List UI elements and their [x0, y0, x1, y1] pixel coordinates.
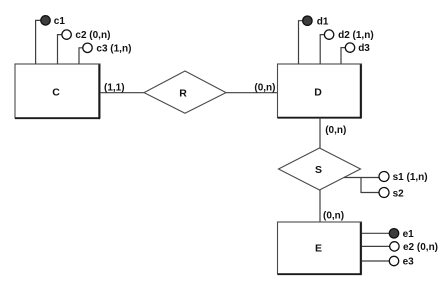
wire c2 stem	[58, 35, 62, 64]
attribute d1 (identifier)	[303, 16, 312, 25]
attribute e2	[390, 242, 399, 251]
attribute s1	[379, 172, 389, 182]
wire C to R	[100, 92, 144, 94]
attribute c2	[62, 30, 71, 39]
wire e1	[362, 232, 390, 234]
svg-text:c2 (0,n): c2 (0,n)	[75, 30, 110, 41]
svg-text:C: C	[52, 87, 60, 99]
wire S to E	[319, 190, 321, 222]
svg-text:S: S	[315, 164, 322, 176]
entity D	[278, 64, 362, 119]
wire D to S	[319, 118, 321, 149]
attribute s2	[379, 188, 389, 198]
svg-text:s2: s2	[393, 188, 405, 199]
attribute e3	[389, 256, 398, 265]
wire c3 stem	[79, 48, 83, 64]
attribute d3	[345, 43, 354, 52]
svg-text:d2 (1,n): d2 (1,n)	[338, 30, 374, 41]
wire junction to s2	[361, 178, 379, 193]
svg-text:c1: c1	[54, 16, 66, 27]
svg-text:(0,n): (0,n)	[254, 82, 275, 93]
svg-text:R: R	[179, 88, 187, 100]
svg-text:d3: d3	[358, 43, 370, 54]
svg-text:e3: e3	[403, 257, 415, 268]
entity E	[278, 222, 362, 275]
wire c1 stem	[36, 20, 41, 64]
wire S to s1	[344, 177, 379, 179]
svg-text:(0,n): (0,n)	[325, 125, 346, 136]
attribute d2	[324, 30, 333, 39]
attribute c3	[83, 43, 92, 52]
relationship R	[144, 71, 226, 113]
svg-text:c3 (1,n): c3 (1,n)	[96, 43, 131, 54]
svg-text:e2 (0,n): e2 (0,n)	[403, 242, 438, 253]
svg-text:s1 (1,n): s1 (1,n)	[393, 172, 428, 183]
wire R to D	[226, 92, 278, 94]
svg-text:e1: e1	[403, 229, 415, 240]
svg-text:d1: d1	[317, 16, 329, 27]
relationship S	[279, 148, 361, 190]
svg-text:E: E	[315, 243, 322, 255]
svg-text:(1,1): (1,1)	[104, 82, 125, 93]
attribute e1 (identifier)	[389, 229, 398, 238]
wire e2	[362, 245, 390, 247]
wire d1 stem	[299, 21, 303, 64]
wire e3	[362, 260, 390, 262]
svg-text:(0,n): (0,n)	[323, 211, 344, 222]
svg-text:D: D	[314, 87, 322, 99]
attribute c1 (identifier)	[41, 16, 50, 25]
wire d3 stem	[341, 48, 345, 64]
wire d2 stem	[320, 35, 324, 64]
entity C	[15, 64, 100, 119]
